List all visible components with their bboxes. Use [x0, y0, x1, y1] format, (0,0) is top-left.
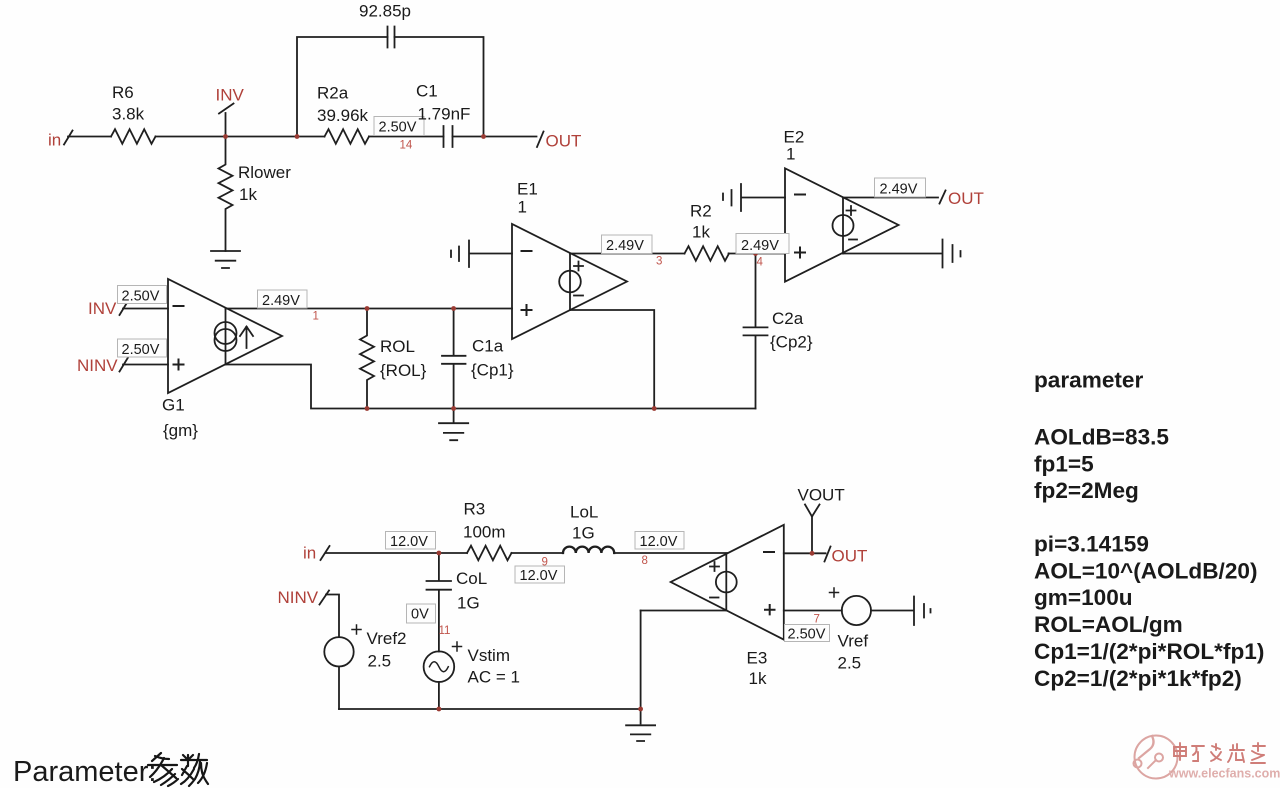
svg-text:0V: 0V — [411, 607, 429, 623]
svg-text:2.49V: 2.49V — [262, 293, 300, 309]
svg-text:{gm}: {gm} — [163, 421, 198, 440]
svg-text:pi=3.14159: pi=3.14159 — [1034, 532, 1149, 557]
svg-text:2.50V: 2.50V — [122, 289, 160, 305]
svg-text:R6: R6 — [112, 83, 134, 102]
svg-text:R2a: R2a — [317, 84, 349, 103]
svg-text:1: 1 — [786, 145, 795, 164]
svg-text:1k: 1k — [692, 223, 710, 242]
svg-text:AC = 1: AC = 1 — [468, 668, 520, 687]
svg-text:www.elecfans.com: www.elecfans.com — [1168, 767, 1280, 781]
svg-text:92.85p: 92.85p — [359, 2, 411, 21]
svg-text:OUT: OUT — [832, 547, 868, 566]
svg-text:2.49V: 2.49V — [606, 238, 644, 254]
svg-text:39.96k: 39.96k — [317, 106, 369, 125]
svg-text:G1: G1 — [162, 396, 185, 415]
svg-text:NINV: NINV — [278, 588, 319, 607]
svg-text:fp2=2Meg: fp2=2Meg — [1034, 478, 1139, 503]
svg-text:C2a: C2a — [772, 309, 804, 328]
svg-text:AOL=10^(AOLdB/20): AOL=10^(AOLdB/20) — [1034, 558, 1257, 583]
svg-text:2.5: 2.5 — [838, 654, 862, 673]
svg-text:CoL: CoL — [456, 569, 487, 588]
svg-text:1G: 1G — [457, 594, 480, 613]
svg-text:INV: INV — [216, 86, 245, 105]
svg-text:3.8k: 3.8k — [112, 105, 145, 124]
svg-text:Rlower: Rlower — [238, 163, 291, 182]
svg-text:12.0V: 12.0V — [640, 534, 678, 550]
svg-text:R2: R2 — [690, 202, 712, 221]
svg-text:2.49V: 2.49V — [741, 238, 779, 254]
svg-text:Cp2=1/(2*pi*1k*fp2): Cp2=1/(2*pi*1k*fp2) — [1034, 666, 1242, 691]
svg-text:ROL=AOL/gm: ROL=AOL/gm — [1034, 612, 1183, 637]
svg-text:8: 8 — [642, 555, 648, 567]
svg-text:{Cp1}: {Cp1} — [471, 361, 514, 380]
svg-text:2.5: 2.5 — [368, 652, 392, 671]
svg-text:in: in — [48, 131, 61, 150]
svg-text:14: 14 — [400, 140, 413, 152]
svg-text:parameter: parameter — [1034, 368, 1143, 393]
svg-text:VOUT: VOUT — [798, 486, 845, 505]
svg-text:1G: 1G — [572, 524, 595, 543]
svg-text:{Cp2}: {Cp2} — [770, 333, 813, 352]
svg-text:1k: 1k — [239, 185, 257, 204]
svg-text:C1: C1 — [416, 82, 438, 101]
svg-text:OUT: OUT — [546, 132, 582, 151]
svg-text:R3: R3 — [464, 500, 486, 519]
svg-text:1: 1 — [313, 311, 319, 323]
svg-text:E3: E3 — [747, 649, 768, 668]
svg-text:LoL: LoL — [570, 503, 598, 522]
svg-text:AOLdB=83.5: AOLdB=83.5 — [1034, 425, 1169, 450]
svg-text:Cp1=1/(2*pi*ROL*fp1): Cp1=1/(2*pi*ROL*fp1) — [1034, 639, 1264, 664]
svg-text:fp1=5: fp1=5 — [1034, 451, 1094, 476]
svg-text:C1a: C1a — [472, 337, 504, 356]
svg-text:Vref2: Vref2 — [367, 629, 407, 648]
svg-text:Vref: Vref — [838, 632, 869, 651]
svg-text:100m: 100m — [463, 523, 506, 542]
svg-text:Parameter:: Parameter: — [13, 756, 156, 788]
svg-text:2.49V: 2.49V — [880, 182, 918, 198]
svg-text:12.0V: 12.0V — [520, 568, 558, 584]
svg-text:gm=100u: gm=100u — [1034, 585, 1133, 610]
svg-text:1.79nF: 1.79nF — [418, 105, 471, 124]
svg-text:9: 9 — [542, 557, 548, 569]
svg-text:1: 1 — [518, 198, 527, 217]
svg-text:7: 7 — [814, 614, 820, 626]
svg-text:11: 11 — [439, 625, 451, 637]
svg-text:2.50V: 2.50V — [788, 627, 826, 643]
svg-text:2.50V: 2.50V — [122, 342, 160, 358]
svg-text:4: 4 — [757, 257, 764, 269]
svg-text:12.0V: 12.0V — [390, 534, 428, 550]
svg-text:INV: INV — [88, 299, 117, 318]
svg-text:OUT: OUT — [948, 189, 984, 208]
svg-text:ROL: ROL — [380, 337, 415, 356]
svg-text:Vstim: Vstim — [468, 646, 511, 665]
svg-text:3: 3 — [656, 256, 662, 268]
svg-text:2.50V: 2.50V — [379, 120, 417, 136]
svg-text:NINV: NINV — [77, 356, 118, 375]
svg-text:in: in — [303, 544, 316, 563]
svg-text:1k: 1k — [749, 669, 767, 688]
svg-text:{ROL}: {ROL} — [380, 361, 427, 380]
svg-text:E1: E1 — [517, 180, 538, 199]
